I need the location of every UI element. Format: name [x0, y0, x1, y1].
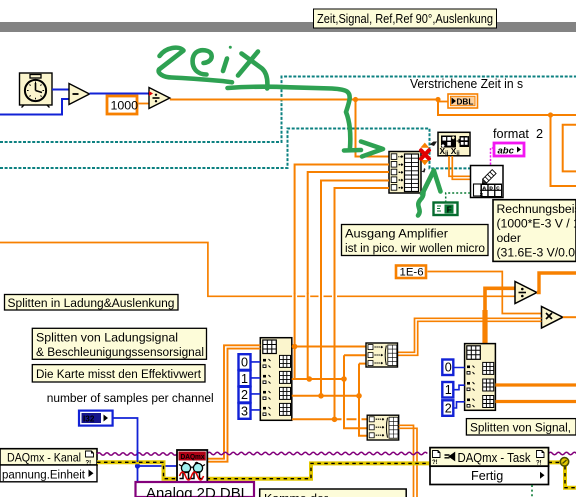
numeric constant 1000: [107, 96, 138, 114]
svg-text:(1000*E-3 V / 10: (1000*E-3 V / 10: [497, 217, 576, 231]
svg-text:0: 0: [445, 361, 452, 375]
wire divide2 out thick: [537, 273, 576, 293]
svg-text:F: F: [447, 205, 452, 214]
insert marker triangles and X: [420, 142, 437, 173]
index array node 012: [465, 344, 496, 411]
svg-text:ist in pico. wir wollen micro: ist in pico. wir wollen micro: [345, 241, 485, 255]
wire crossing gaps on long horizontal: [292, 293, 337, 300]
wire branch down to build array row1: [356, 100, 390, 157]
wire H2 row2 out: [292, 378, 344, 380]
orange C frame right edge: [563, 125, 576, 172]
svg-text:Splitten von Ladungsignal: Splitten von Ladungsignal: [36, 330, 178, 344]
wire 1E-6 to multiply top: [428, 272, 542, 314]
wire v5 branch: [344, 355, 367, 428]
numeric constants 0 1 2 3: [239, 354, 251, 419]
label Splitten in Ladung: [5, 295, 179, 311]
matrix node Xjj: [438, 132, 470, 157]
svg-text:1: 1: [445, 383, 452, 397]
wire clock to subtract: [52, 89, 69, 91]
indicator Analog 2D DBL: [136, 482, 255, 497]
wire blue over yellow crossing: [137, 450, 139, 462]
svg-text:DBL: DBL: [457, 98, 474, 107]
svg-text:C: C: [496, 185, 500, 191]
multiply node: [542, 307, 563, 329]
svg-text:Splitten in Ladung&Auslenkung: Splitten in Ladung&Auslenkung: [8, 296, 175, 310]
svg-text:abc: abc: [498, 146, 515, 157]
wire multiply out: [563, 316, 576, 318]
boolean constant F: [434, 203, 458, 216]
index array node big: [260, 338, 292, 421]
numeric constants 0 1 2: [442, 360, 453, 416]
svg-text:1: 1: [241, 372, 248, 386]
build array node A1: [389, 152, 421, 194]
wire build array input row5: [335, 188, 390, 419]
wire v1 lower: [294, 347, 296, 380]
label frame title: [314, 9, 497, 28]
svg-text:Rechnungsbeispiel: Rechnungsbeispiel: [497, 202, 576, 216]
wire divide output main orange: [170, 99, 438, 101]
tick count clock U1: [20, 73, 53, 108]
svg-text:Die Karte misst den Effektivwe: Die Karte misst den Effektivwert: [36, 367, 202, 381]
svg-text:2: 2: [241, 388, 248, 402]
handwriting arrow 2: [418, 171, 441, 216]
numeric constant I32: [79, 411, 113, 426]
svg-text:1E-6: 1E-6: [400, 267, 424, 279]
wire H1 row1 out: [292, 346, 366, 348]
wire 2D pair from daqmx read up into index node: [207, 345, 260, 461]
wire v6 branch: [359, 364, 367, 436]
wire purple task left: [97, 453, 177, 456]
svg-text:I32: I32: [83, 414, 95, 423]
wire thick 2D to divide2: [485, 288, 515, 344]
svg-text:number of samples per channel: number of samples per channel: [47, 391, 214, 405]
svg-text:Verstrichene Zeit in s: Verstrichene Zeit in s: [410, 77, 523, 91]
svg-text:0: 0: [241, 356, 248, 370]
label Kamme der: [260, 489, 407, 497]
wire yellow channel right: [549, 462, 576, 487]
wire yellow channel: [97, 462, 430, 478]
wire crossing gaps on H4: [342, 416, 362, 423]
svg-text:format 2: format 2: [493, 127, 543, 141]
divide node 2: [515, 282, 537, 304]
svg-text:oder: oder: [497, 231, 521, 245]
wire elbow to DBL and right side: [438, 100, 576, 116]
junction dot: [353, 97, 358, 102]
wire long thin to divide2: [0, 243, 515, 297]
svg-text:& Beschleunigungssensorsignal: & Beschleunigungssensorsignal: [36, 345, 204, 359]
subtract node: [69, 84, 90, 105]
label Ausgang Amplifier: [342, 225, 489, 256]
svg-text:Splitten von Signal,: Splitten von Signal,: [470, 421, 571, 435]
task node DAQmx Task: [430, 448, 549, 485]
wire blue from left edge: [0, 99, 69, 115]
build array node2: [367, 415, 399, 440]
wire node2 output pair down: [399, 425, 417, 497]
wire string pink: [491, 148, 495, 166]
svg-text:1000: 1000: [111, 99, 139, 113]
coercion dot red: [149, 91, 153, 96]
wire stub to DBL: [438, 101, 448, 103]
svg-text:Kamme der: Kamme der: [264, 492, 328, 497]
svg-text:Analog 2D DBL: Analog 2D DBL: [146, 486, 249, 497]
svg-text:Ausgang Amplifier: Ausgang Amplifier: [345, 227, 448, 241]
divide node: [149, 88, 170, 109]
label Die Karte misst: [32, 365, 205, 382]
junction dot: [548, 112, 553, 117]
svg-text:Fertig: Fertig: [471, 469, 503, 483]
svg-text:D: D: [489, 185, 493, 191]
svg-text:2: 2: [445, 402, 452, 416]
string constant abc: [494, 143, 524, 157]
label Splitten von Ladungsignal: [32, 328, 206, 359]
junction dot: [435, 97, 440, 102]
wire from dot down right edge: [551, 115, 576, 186]
terminal circle: [560, 458, 568, 466]
wire node1 output pair to multiply: [398, 318, 542, 355]
svg-text:Zeit,Signal, Ref,Ref 90°,Ausle: Zeit,Signal, Ref,Ref 90°,Auslenkung: [317, 12, 493, 26]
daqmx read node: [177, 450, 207, 482]
wire purple task mid: [207, 452, 427, 455]
svg-text:?!: ?!: [432, 460, 438, 466]
wire boolean dotted: [446, 193, 471, 203]
svg-text:(31.6E-3 V/0.031: (31.6E-3 V/0.031: [497, 246, 576, 260]
wire purple task right: [549, 452, 576, 455]
junction dots: [292, 344, 362, 422]
while loop border lower (teal dashed): [0, 129, 471, 169]
indicator DBL: [448, 94, 478, 108]
wires 0123 to index node: [251, 362, 261, 410]
wire matrix to table node: [449, 156, 471, 179]
svg-text:DAQmx - Kanal: DAQmx - Kanal: [7, 451, 81, 465]
svg-text:DAQmx: DAQmx: [181, 454, 205, 461]
build array node1: [366, 343, 398, 367]
gray separator bar: [0, 22, 576, 32]
wire 1000 to divide: [139, 103, 150, 105]
wire H4 row4 out: [292, 418, 367, 420]
svg-text:DAQmx - Task: DAQmx - Task: [458, 451, 532, 465]
handwriting zeit: [159, 46, 383, 157]
wire build array input row4: [321, 181, 389, 396]
wire build array input row2: [295, 165, 389, 347]
wires 012 to node: [454, 368, 465, 409]
property node DAQmx Kanal: [0, 449, 97, 482]
label Splitten von Signal: [466, 419, 576, 435]
svg-text:A: A: [482, 185, 486, 191]
wire boolean dotted bottom: [531, 485, 533, 497]
wire H3 row3 out: [292, 395, 359, 397]
while loop border upper (teal dashed): [0, 77, 576, 143]
numeric constant 1E-6: [396, 266, 426, 279]
svg-text:pannung.Einheit: pannung.Einheit: [2, 467, 86, 481]
wire I32 blue: [113, 418, 177, 497]
wire 012node outputs thick: [495, 385, 576, 402]
junction dot blue: [135, 463, 140, 468]
label Rechnungsbeispiel: [493, 200, 576, 262]
wire build array input row3: [308, 172, 389, 379]
wire subtract to divide: [90, 93, 150, 95]
table node spreadsheet string: [471, 166, 504, 198]
svg-text:3: 3: [241, 404, 248, 418]
